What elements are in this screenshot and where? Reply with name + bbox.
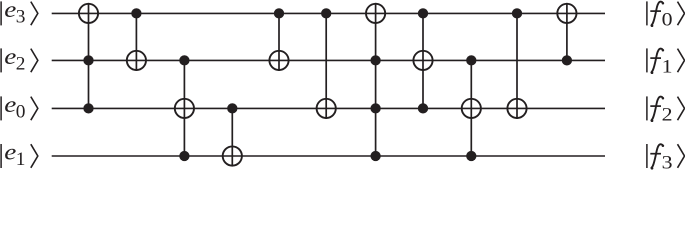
wire vertical connector xyxy=(278,13,280,71)
f bottom ball xyxy=(651,119,654,122)
f crossbar xyxy=(650,10,661,12)
ket bar | xyxy=(0,1,2,25)
ket bar | xyxy=(646,96,648,120)
target XOR symbol xyxy=(462,99,481,118)
control dot xyxy=(370,55,380,65)
wire vertical connector xyxy=(470,60,472,156)
wire vertical connector xyxy=(325,13,327,119)
wire qubit e1 (bottom) xyxy=(52,155,605,157)
ket angle bracket > xyxy=(31,97,38,121)
svg-text:2: 2 xyxy=(662,105,673,125)
svg-text:1: 1 xyxy=(16,149,26,170)
control dot xyxy=(83,103,93,113)
label ket |f2> right wire 3 xyxy=(647,96,685,125)
svg-text:3: 3 xyxy=(662,153,673,171)
control dot xyxy=(562,55,572,65)
wire vertical connector xyxy=(183,60,185,156)
f bottom ball xyxy=(651,167,654,170)
ket bar | xyxy=(0,48,2,72)
target XOR symbol xyxy=(127,51,146,70)
ket angle bracket > xyxy=(31,49,38,73)
control dot xyxy=(227,103,237,113)
gate G8 Toffoli: controls e3,e0, target e2 xyxy=(413,8,432,113)
gate G5 CNOT: control e3, target e2 xyxy=(269,8,288,71)
svg-text:3: 3 xyxy=(16,7,26,28)
letter f italic stem xyxy=(651,49,663,73)
wire vertical connector xyxy=(88,3,90,109)
wire vertical connector xyxy=(516,13,518,119)
label ket |f1> right wire 2 xyxy=(647,48,685,77)
control dot xyxy=(418,8,428,18)
control dot xyxy=(512,8,522,18)
ket angle bracket > xyxy=(678,2,685,26)
target XOR symbol xyxy=(317,99,336,118)
f top ball xyxy=(662,97,665,100)
gate G2 CNOT: control e3, target e2 xyxy=(127,8,146,71)
wire vertical connector xyxy=(375,3,377,156)
control dot xyxy=(466,55,476,65)
ket angle bracket > xyxy=(31,144,38,168)
label ket |e3> left wire 1 xyxy=(1,0,38,28)
f top ball xyxy=(662,145,665,148)
f top ball xyxy=(662,49,665,52)
label ket |e2> left wire 2 xyxy=(1,45,38,75)
control dot xyxy=(274,8,284,18)
f bottom ball xyxy=(651,71,654,74)
f bottom ball xyxy=(651,24,654,27)
letter f italic stem xyxy=(651,97,663,121)
target XOR symbol xyxy=(79,4,98,23)
svg-text:0: 0 xyxy=(16,102,26,123)
f crossbar xyxy=(650,153,661,155)
ket angle bracket > xyxy=(678,49,685,73)
ket bar | xyxy=(0,144,2,168)
gate G7 CCCNOT: target e3, controls e2,e0,e1 xyxy=(366,3,385,161)
letter f italic stem xyxy=(651,144,663,168)
ket bar | xyxy=(646,1,648,25)
target XOR symbol xyxy=(366,4,385,23)
ket angle bracket > xyxy=(31,2,38,26)
wire qubit e0 xyxy=(52,107,605,109)
gate G10 CNOT: control e3, target e0 xyxy=(507,8,526,119)
control dot xyxy=(179,55,189,65)
svg-text:0: 0 xyxy=(662,10,673,30)
ket bar | xyxy=(0,96,2,120)
target XOR symbol xyxy=(223,146,242,165)
gate G1 Toffoli: target e3, controls e2,e0 xyxy=(79,3,98,114)
svg-text:e: e xyxy=(4,140,16,165)
label ket |e0> left wire 3 xyxy=(1,93,38,123)
label ket |f0> right wire 1 xyxy=(647,1,685,30)
control dot xyxy=(83,55,93,65)
control dot xyxy=(321,8,331,18)
letter f italic stem xyxy=(651,2,663,26)
label ket |e1> left wire 4 xyxy=(1,140,38,170)
wire vertical connector xyxy=(135,13,137,71)
ket angle bracket > xyxy=(678,97,685,121)
control dot xyxy=(131,8,141,18)
ket bar | xyxy=(646,48,648,72)
gate G6 CNOT: control e3, target e0 xyxy=(317,8,336,119)
wire qubit e3 (top) xyxy=(52,12,605,14)
f top ball xyxy=(662,2,665,4)
wire vertical connector xyxy=(566,3,568,61)
svg-text:e: e xyxy=(4,45,16,70)
wire vertical connector xyxy=(231,108,233,166)
label ket |f3> right wire 4 xyxy=(647,144,685,173)
target XOR symbol xyxy=(507,99,526,118)
svg-text:e: e xyxy=(4,93,16,118)
svg-text:e: e xyxy=(4,0,16,22)
f crossbar xyxy=(650,105,661,107)
gate G4 CNOT: control e0, target e1 xyxy=(223,103,242,166)
target XOR symbol xyxy=(269,51,288,70)
gate G11 CNOT: target e3, control e2 xyxy=(557,3,576,66)
control dot xyxy=(370,103,380,113)
target XOR symbol xyxy=(413,51,432,70)
control dot xyxy=(466,151,476,161)
ket bar | xyxy=(646,144,648,168)
f crossbar xyxy=(650,57,661,59)
control dot xyxy=(418,103,428,113)
wire vertical connector xyxy=(422,13,424,108)
target XOR symbol xyxy=(175,99,194,118)
control dot xyxy=(179,151,189,161)
ket angle bracket > xyxy=(678,144,685,168)
gate G3 Toffoli: controls e2,e1, target e0 xyxy=(175,55,194,161)
control dot xyxy=(370,151,380,161)
gate G9 Toffoli: controls e2,e1, target e0 xyxy=(462,55,481,161)
svg-text:1: 1 xyxy=(662,57,673,77)
wire qubit e2 xyxy=(52,59,605,61)
svg-text:2: 2 xyxy=(16,54,26,75)
target XOR symbol xyxy=(557,4,576,23)
